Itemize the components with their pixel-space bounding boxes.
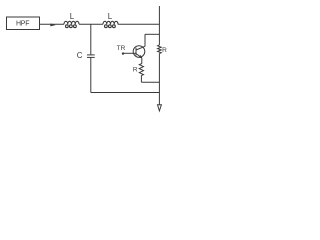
svg-text:C: C <box>77 51 83 60</box>
svg-text:TR: TR <box>117 45 126 52</box>
svg-text:R: R <box>162 47 167 54</box>
svg-text:HPF: HPF <box>16 21 29 28</box>
svg-text:L: L <box>70 12 75 21</box>
svg-text:R: R <box>133 67 138 74</box>
svg-text:L: L <box>108 12 113 21</box>
